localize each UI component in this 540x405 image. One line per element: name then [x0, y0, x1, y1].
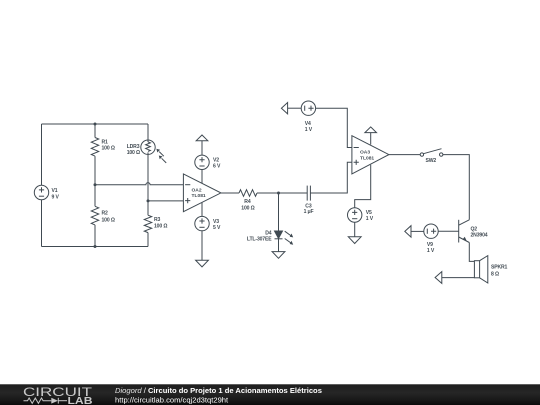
footer url text: [115, 395, 229, 404]
label R1 100ohm: [102, 139, 115, 151]
wire arrow to V9: [411, 230, 424, 232]
label R4 100ohm: [241, 199, 254, 212]
wire opamp to V3: [201, 203, 203, 217]
wire node to D4: [278, 193, 280, 231]
label V2 6V: [213, 157, 221, 169]
svg-text:1 V: 1 V: [305, 127, 313, 133]
wire left rail upper: [41, 124, 43, 185]
svg-text:LDR3: LDR3: [127, 144, 140, 150]
svg-text:5 V: 5 V: [213, 225, 221, 231]
svg-text:OA3: OA3: [360, 150, 370, 156]
svg-text:8 Ω: 8 Ω: [491, 272, 499, 278]
label OA3 TL081: [360, 150, 374, 162]
voltage source V3: [195, 216, 209, 230]
svg-text:V5: V5: [366, 210, 372, 216]
op-amp OA2: [183, 174, 221, 212]
svg-text:D4: D4: [265, 230, 272, 236]
svg-text:V9: V9: [427, 242, 433, 248]
voltage source V1: [34, 185, 48, 199]
svg-text:V2: V2: [213, 157, 219, 163]
wire OA3 bottom pin to V5: [355, 165, 371, 208]
svg-text:SPKR1: SPKR1: [491, 265, 508, 271]
wire hop minus-input over LDR column: [95, 183, 183, 185]
svg-text:SW2: SW2: [426, 158, 437, 164]
light arrows into LDR3: [156, 149, 166, 163]
label Q2 2N3904: [471, 226, 488, 238]
svg-text:LTL-307EE: LTL-307EE: [247, 237, 272, 243]
svg-text:Diogord / Circuito do Projeto: Diogord / Circuito do Projeto 1 de Acion…: [115, 386, 322, 395]
resistor R1: [91, 124, 98, 185]
junction bottom R2: [94, 245, 97, 248]
speaker SPKR1: [474, 256, 487, 283]
logo LAB text: [68, 396, 93, 405]
LED emission arrows: [285, 231, 294, 245]
wire V4 to minus-input: [316, 108, 352, 147]
wire speaker to ground: [442, 277, 475, 279]
voltage source V2: [195, 155, 209, 169]
LED D4: [275, 231, 283, 239]
label V9 1V: [427, 242, 435, 254]
photoresistor LDR3: [141, 124, 155, 201]
switch SW2: [420, 149, 443, 157]
junction top R1: [94, 123, 97, 126]
wire arrow to V4: [288, 107, 302, 109]
wire OA3 out to SW2: [389, 154, 420, 156]
svg-text:V1: V1: [52, 188, 58, 194]
supply arrow V2: [196, 135, 208, 141]
svg-text:100 Ω: 100 Ω: [127, 150, 140, 156]
junction mid R1R2: [94, 183, 97, 186]
svg-text:R4: R4: [244, 199, 251, 205]
wire bottom rail: [42, 246, 149, 248]
svg-text:100 Ω: 100 Ω: [102, 218, 115, 224]
label C3 1uF: [304, 203, 314, 215]
label SW2: [426, 158, 437, 164]
op-amp OA3: [352, 136, 389, 174]
ground left of speaker: [435, 272, 442, 284]
svg-text:1 V: 1 V: [366, 216, 374, 222]
wire C3 to plus-input riser: [310, 162, 352, 193]
svg-text:100 Ω: 100 Ω: [102, 146, 115, 152]
supply arrow V9 left: [405, 226, 411, 237]
resistor R4: [239, 190, 257, 197]
wire V2 to opamp: [201, 170, 203, 184]
label OA2 TL081: [192, 187, 206, 199]
svg-text:R3: R3: [154, 217, 161, 223]
svg-text:1 μF: 1 μF: [304, 209, 314, 215]
svg-text:100 Ω: 100 Ω: [241, 206, 254, 212]
wire V5 to ground: [354, 222, 356, 237]
svg-text:R1: R1: [102, 139, 109, 145]
ground under D4: [272, 252, 285, 259]
voltage source V9: [424, 224, 438, 238]
voltage source V5: [348, 208, 362, 222]
supply arrow V4 left: [281, 103, 287, 114]
svg-text:Q2: Q2: [471, 226, 478, 232]
svg-text:OA2: OA2: [192, 187, 202, 193]
wire D4 to ground: [278, 239, 280, 252]
label V5 1V: [366, 210, 374, 222]
ground under V5: [348, 237, 361, 244]
logo CIRCUIT text: [23, 385, 93, 399]
footer bar: [0, 384, 540, 405]
label SPKR1 8ohm: [491, 265, 508, 278]
label V1 9V: [52, 188, 60, 200]
wire R4 to node: [257, 192, 307, 194]
label V4 1V: [305, 121, 313, 133]
svg-text:V4: V4: [305, 121, 311, 127]
svg-text:9 V: 9 V: [52, 194, 60, 200]
svg-text:TL081: TL081: [192, 193, 206, 199]
svg-text:LAB: LAB: [68, 396, 93, 405]
svg-text:100 Ω: 100 Ω: [154, 224, 167, 230]
wire emitter to speaker: [469, 243, 474, 262]
wire arrow into OA3: [370, 133, 372, 145]
svg-text:6 V: 6 V: [213, 164, 221, 170]
svg-text:1 V: 1 V: [427, 248, 435, 254]
svg-text:http://circuitlab.com/cqj2d3tq: http://circuitlab.com/cqj2d3tqt29ht: [115, 395, 229, 404]
wire top rail: [42, 123, 149, 125]
wire arrow to V2: [201, 141, 203, 155]
wire opamp out to R4: [221, 192, 239, 194]
capacitor C3: [307, 186, 310, 201]
ground under V3: [196, 260, 209, 267]
junction plus-input node: [147, 199, 150, 202]
wire left rail lower: [41, 200, 43, 247]
logo resistor-diode line: [24, 398, 68, 404]
label LDR3 100ohm: [127, 144, 140, 156]
svg-text:2N3904: 2N3904: [471, 233, 488, 239]
label D4 LTL-307EE: [247, 230, 272, 242]
svg-text:R2: R2: [102, 211, 109, 217]
resistor R2: [91, 185, 98, 247]
junction D4 node: [277, 192, 280, 195]
wire V9 to base: [438, 230, 459, 232]
voltage source V4: [301, 101, 315, 115]
wire SW2 to collector: [443, 155, 469, 220]
footer title text: [115, 386, 322, 395]
label R2 100ohm: [102, 211, 115, 224]
wire V3 to ground: [201, 231, 203, 260]
supply arrow OA3: [365, 127, 377, 133]
transistor Q2: [459, 220, 470, 243]
label V3 5V: [213, 219, 221, 231]
label R3 100ohm: [154, 217, 167, 229]
svg-text:TL081: TL081: [360, 155, 374, 161]
wire plus-input: [148, 200, 183, 202]
resistor R3: [144, 201, 151, 247]
